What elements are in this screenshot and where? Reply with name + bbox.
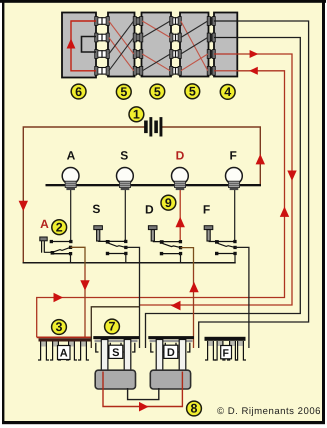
svg-text:5: 5 xyxy=(154,85,161,99)
switch F xyxy=(203,203,237,263)
socket D plug pins xyxy=(156,340,163,373)
lamp rail xyxy=(46,184,262,186)
switch D xyxy=(145,203,182,263)
svg-text:7: 7 xyxy=(109,320,116,334)
rotor R1 body xyxy=(108,13,135,77)
battery cell plates xyxy=(145,118,162,136)
arrow left on return line y305 xyxy=(171,301,181,311)
svg-text:5: 5 xyxy=(120,85,127,99)
rotor R3 internal wiring xyxy=(181,21,208,71)
pins gap R3-entry xyxy=(207,17,215,76)
socket S plug pins xyxy=(101,340,108,373)
svg-text:3: 3 xyxy=(56,320,63,334)
socket S letter box xyxy=(109,345,123,358)
arrow down on switch A wire xyxy=(80,280,89,290)
svg-text:F: F xyxy=(230,149,237,163)
label 8 xyxy=(187,401,202,416)
socket A bar xyxy=(39,338,92,341)
switch S xyxy=(92,202,127,263)
svg-text:5: 5 xyxy=(189,85,196,99)
reflector red arrow up xyxy=(67,39,76,49)
switch S wire to socket S (black) xyxy=(126,247,140,348)
svg-text:D: D xyxy=(167,347,175,359)
svg-text:A: A xyxy=(40,217,49,231)
switch D wire to socket D (dark red, active return) xyxy=(181,248,194,270)
arrow left on row4 xyxy=(249,67,258,75)
svg-text:© D. Rijmenants 2006: © D. Rijmenants 2006 xyxy=(217,406,321,417)
arrow up on lamp D wire xyxy=(176,217,185,227)
label 4 (entry wheel) xyxy=(220,85,235,100)
lamp A xyxy=(62,149,79,191)
svg-text:9: 9 xyxy=(165,196,172,210)
lamp S wire down xyxy=(124,189,126,242)
socket A letter box xyxy=(58,346,71,360)
arrow right on patch cable xyxy=(139,402,149,412)
svg-text:8: 8 xyxy=(191,402,198,416)
lamp S xyxy=(117,149,134,191)
lamp D wire down (red, active) xyxy=(179,189,181,243)
wire entry row1 to socket F (black) xyxy=(199,21,309,348)
socket A enclosure left wire already drawn; socket A red bar top xyxy=(37,336,92,338)
switch F wire to socket F (black) xyxy=(235,247,249,348)
lamp F wire down xyxy=(234,189,236,242)
battery left wire down to switch A bus xyxy=(23,127,146,263)
arrow up on lamp rail feed xyxy=(256,154,265,164)
socket S side contacts xyxy=(96,343,135,352)
arrow up on forward vertical xyxy=(280,207,289,217)
svg-text:S: S xyxy=(112,347,119,359)
pins gap reflector-R1 xyxy=(95,17,110,76)
svg-text:2: 2 xyxy=(56,221,63,235)
socket F bar xyxy=(205,337,246,341)
socket F letter box xyxy=(221,346,232,359)
reflector internal black U xyxy=(82,37,97,53)
socket S bars xyxy=(93,336,139,339)
battery right wire down to lamp rail xyxy=(161,127,260,184)
arrow right on forward line y297.5 xyxy=(54,293,64,303)
svg-text:S: S xyxy=(92,202,100,216)
rotor R2 body xyxy=(142,13,172,77)
label 3 xyxy=(52,320,67,335)
patch cable black wire S plug to D plug xyxy=(128,388,159,400)
label 7 xyxy=(105,319,120,334)
plug D body xyxy=(150,370,190,389)
svg-text:A: A xyxy=(60,348,68,360)
pins gap R2-R3 xyxy=(170,17,182,76)
reflector internal wiring red loop xyxy=(71,21,96,71)
label 6 xyxy=(71,84,86,99)
label 9 xyxy=(161,195,176,210)
socket D bars xyxy=(148,336,194,339)
svg-text:F: F xyxy=(203,203,210,217)
svg-text:A: A xyxy=(67,149,76,163)
patch cable red wire S plug to D plug xyxy=(103,372,182,407)
label 1 (battery) xyxy=(129,107,144,122)
svg-text:4: 4 xyxy=(224,85,231,99)
contact pins between wheels xyxy=(95,17,216,76)
arrow right on row3 xyxy=(250,50,259,58)
svg-text:D: D xyxy=(145,203,154,217)
label 5 (rotor 1) xyxy=(116,84,131,99)
label 5 (rotor 3) xyxy=(185,84,200,99)
rotor R1 internal wiring xyxy=(109,21,134,54)
socket F contacts xyxy=(208,341,213,346)
reflector U6 body xyxy=(62,13,96,78)
rotor R2 internal wiring xyxy=(142,21,170,38)
lamp F xyxy=(226,149,243,191)
wire entry row4 to socket A (red forward) xyxy=(37,71,285,338)
arrow down on left battery wire xyxy=(19,201,28,211)
plug S body xyxy=(95,370,135,389)
svg-text:F: F xyxy=(222,348,229,360)
switch A wire to socket A (olive/dark red) xyxy=(71,247,86,266)
switch A (pressed) xyxy=(40,217,73,263)
label 5 (rotor 2) xyxy=(150,84,165,99)
entry wheel internal straight wires xyxy=(214,20,237,22)
arrow up on switch D wire (via socket D) xyxy=(189,282,198,292)
socket D side contacts xyxy=(151,343,190,352)
battery bus under switches xyxy=(23,262,236,264)
lamp A wire down xyxy=(70,189,72,242)
svg-text:D: D xyxy=(176,149,185,163)
socket S enclosure black U xyxy=(91,307,139,348)
lamp D (lit, red label) xyxy=(172,149,189,191)
svg-text:6: 6 xyxy=(75,85,82,99)
pins gap R1-R2 xyxy=(133,17,143,76)
label 2 xyxy=(52,220,67,235)
wire entry row2 to socket D (black) xyxy=(146,38,301,349)
svg-text:S: S xyxy=(120,149,128,163)
wire entry row3 to socket S (red return) xyxy=(140,54,293,305)
arrow down on return vertical xyxy=(287,171,296,181)
svg-text:1: 1 xyxy=(133,108,140,122)
rotor R3 body xyxy=(180,13,209,77)
entry wheel body xyxy=(214,13,237,77)
border frame xyxy=(0,0,326,3)
socket A contacts xyxy=(41,342,46,347)
socket D letter box xyxy=(164,345,178,358)
